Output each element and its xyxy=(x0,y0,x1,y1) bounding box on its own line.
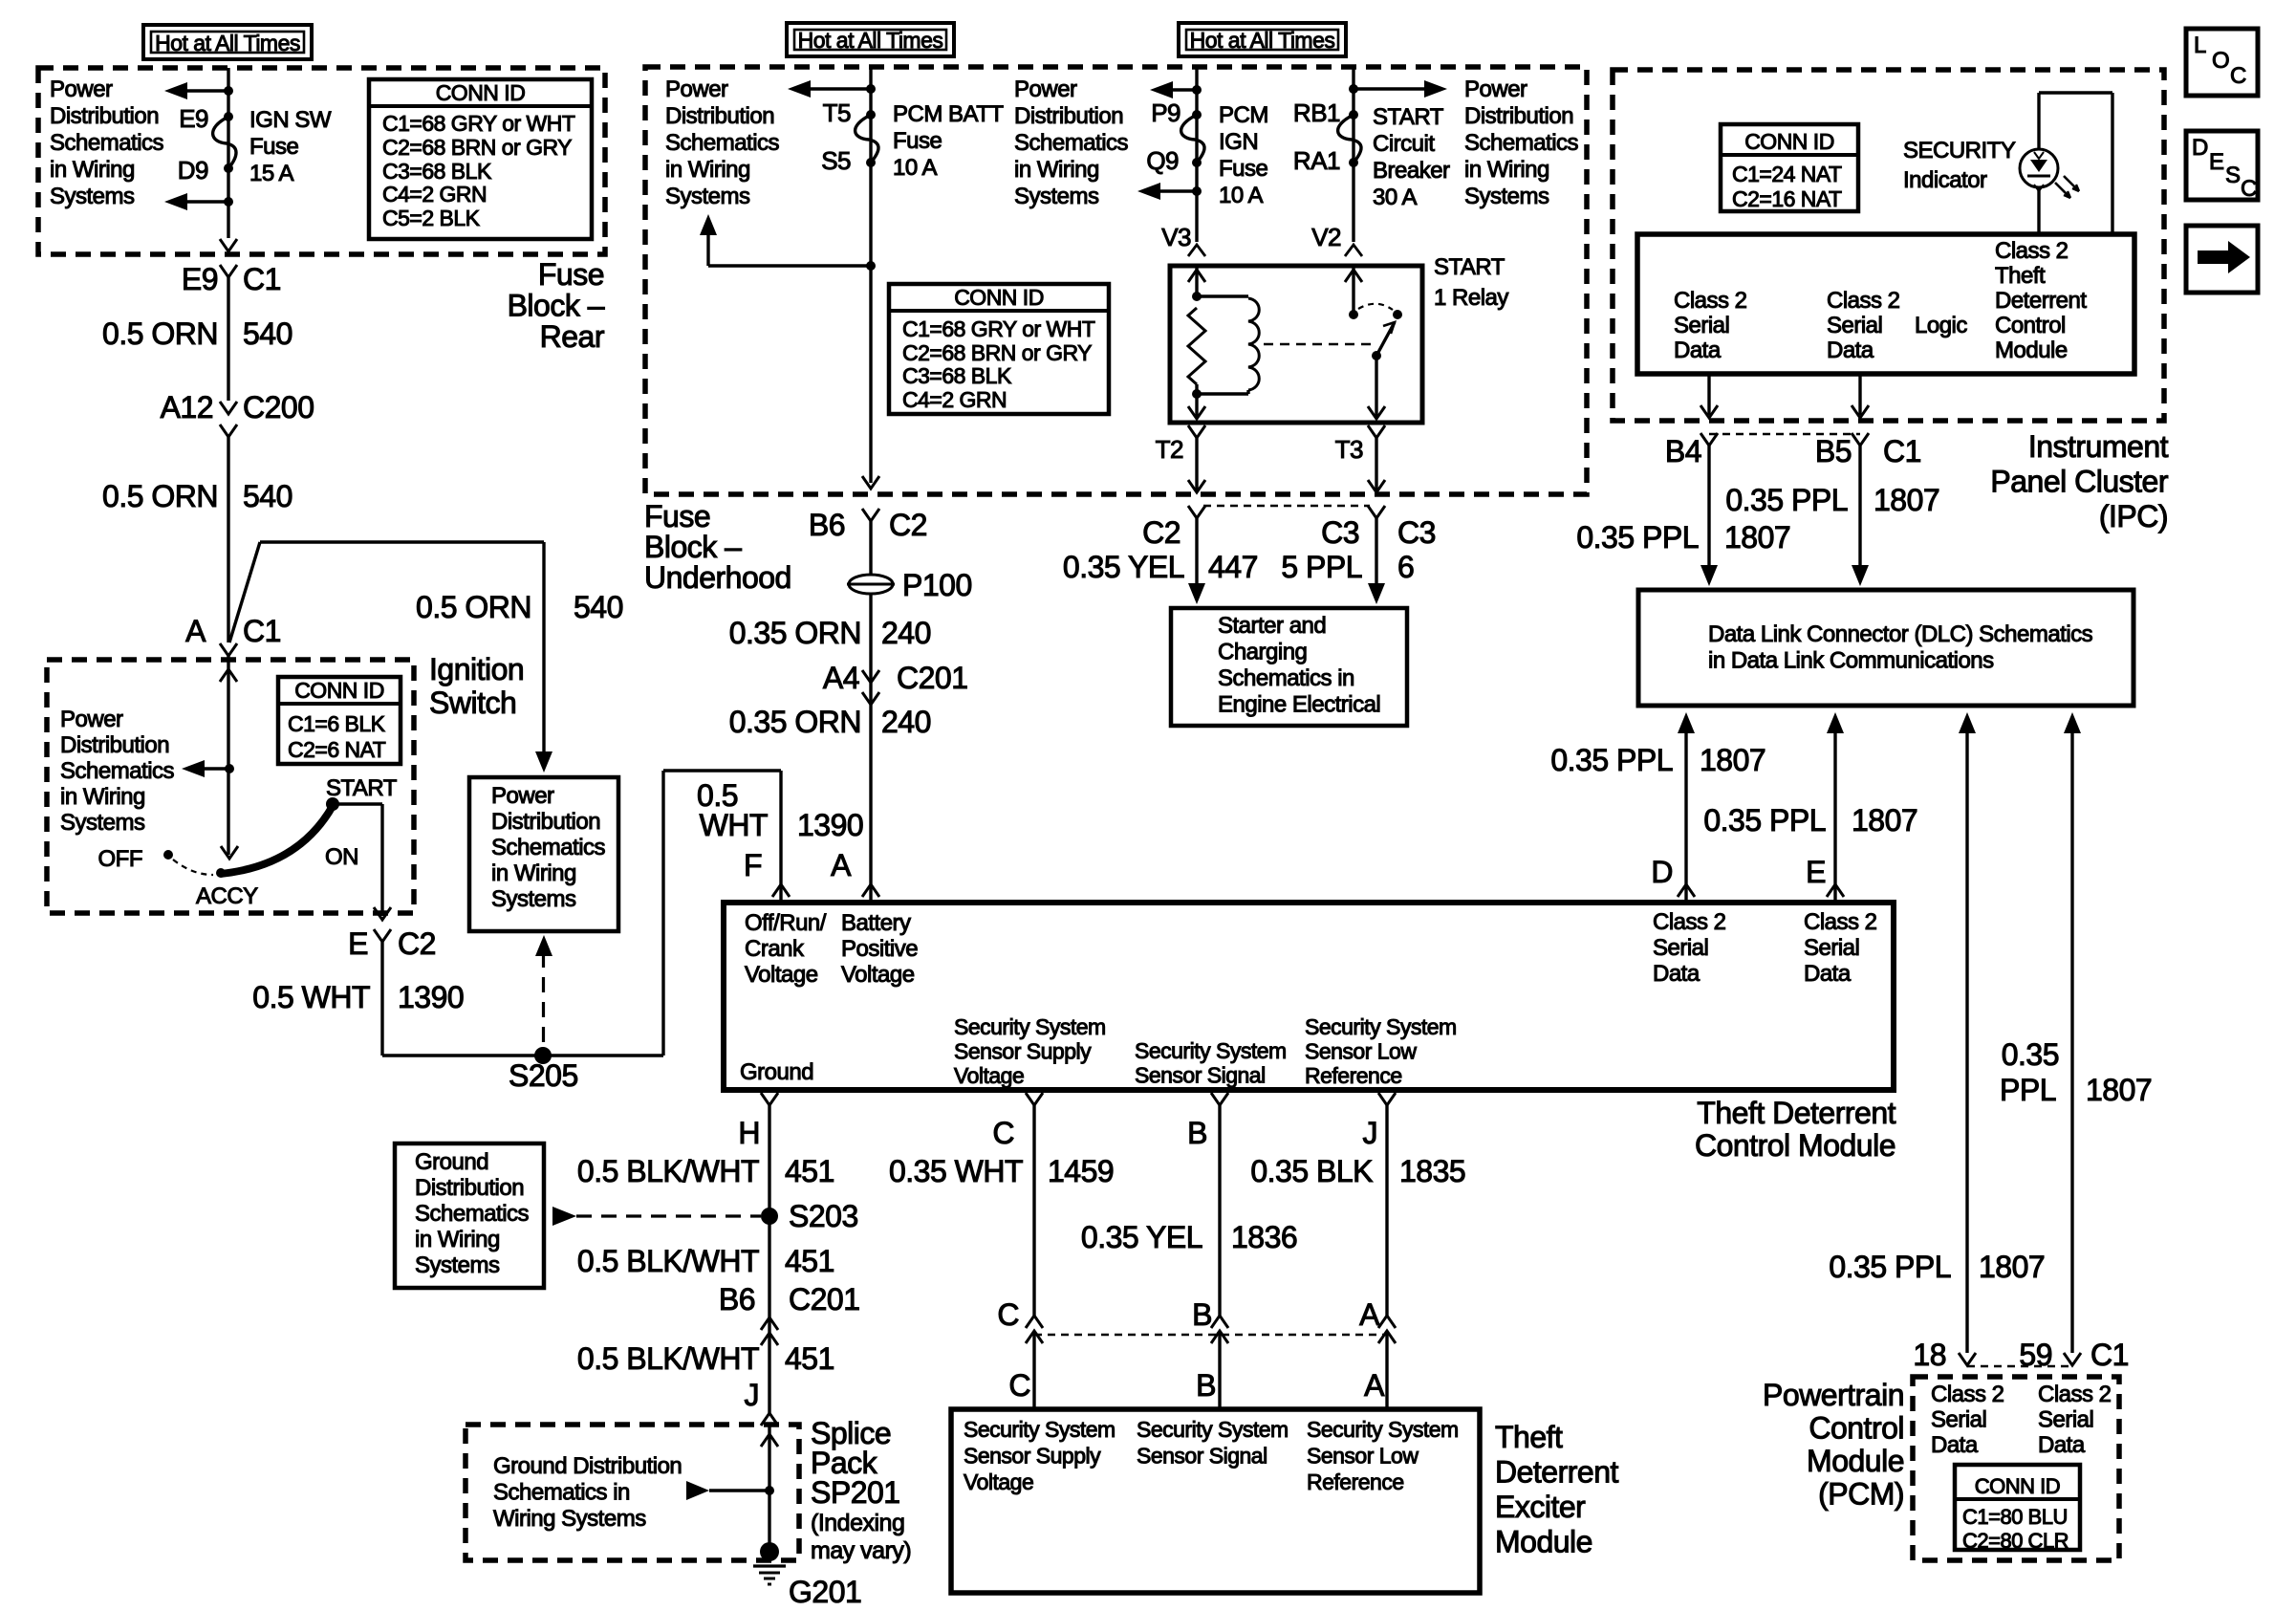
svg-text:in Wiring: in Wiring xyxy=(1014,157,1099,183)
svg-text:J: J xyxy=(1363,1116,1378,1150)
svg-text:Wiring Systems: Wiring Systems xyxy=(493,1506,646,1532)
svg-text:Class 2: Class 2 xyxy=(1674,288,1747,314)
svg-text:Class 2: Class 2 xyxy=(1653,909,1726,935)
svg-text:C2: C2 xyxy=(398,926,436,961)
svg-text:1459: 1459 xyxy=(1048,1154,1114,1188)
svg-text:in Wiring: in Wiring xyxy=(415,1227,500,1252)
svg-text:A4: A4 xyxy=(823,661,859,695)
svg-text:L: L xyxy=(2194,33,2206,58)
svg-text:0.35 ORN: 0.35 ORN xyxy=(729,705,861,739)
svg-text:B4: B4 xyxy=(1665,434,1701,468)
svg-text:Class 2: Class 2 xyxy=(2038,1382,2112,1407)
svg-text:Fuse: Fuse xyxy=(893,128,942,154)
svg-text:Distribution: Distribution xyxy=(415,1175,524,1201)
svg-text:PCM BATT: PCM BATT xyxy=(893,101,1004,127)
svg-text:Schematics: Schematics xyxy=(491,835,606,860)
svg-text:Serial: Serial xyxy=(1827,313,1882,338)
svg-text:Distribution: Distribution xyxy=(665,103,774,129)
svg-text:Sensor Signal: Sensor Signal xyxy=(1137,1444,1267,1469)
svg-text:Class 2: Class 2 xyxy=(1804,909,1877,935)
svg-text:1807: 1807 xyxy=(1979,1250,2045,1284)
svg-text:E9: E9 xyxy=(179,104,208,133)
svg-text:CONN ID: CONN ID xyxy=(1975,1474,2060,1498)
svg-text:Reference: Reference xyxy=(1307,1469,1404,1494)
svg-text:C: C xyxy=(992,1116,1014,1150)
svg-text:Systems: Systems xyxy=(50,184,135,209)
svg-text:1807: 1807 xyxy=(1700,743,1765,777)
svg-text:Serial: Serial xyxy=(1804,935,1859,961)
svg-text:Systems: Systems xyxy=(665,184,750,209)
svg-text:Fuse: Fuse xyxy=(644,499,710,533)
svg-text:Data: Data xyxy=(1827,337,1874,363)
svg-text:Switch: Switch xyxy=(429,686,516,720)
svg-text:H: H xyxy=(738,1116,760,1150)
svg-text:Power: Power xyxy=(1014,76,1077,102)
svg-text:E9: E9 xyxy=(182,262,218,296)
svg-text:Battery: Battery xyxy=(841,910,911,936)
svg-text:Systems: Systems xyxy=(491,886,576,912)
svg-text:0.35 WHT: 0.35 WHT xyxy=(889,1154,1023,1188)
svg-text:0.35: 0.35 xyxy=(2002,1037,2059,1072)
svg-text:0.35 PPL: 0.35 PPL xyxy=(1829,1250,1951,1284)
svg-text:C: C xyxy=(2241,176,2257,202)
svg-text:Power: Power xyxy=(50,76,113,102)
svg-text:Indicator: Indicator xyxy=(1903,167,1987,193)
svg-text:T3: T3 xyxy=(1335,435,1363,464)
svg-text:Schematics in: Schematics in xyxy=(493,1480,630,1506)
svg-text:0.35 ORN: 0.35 ORN xyxy=(729,616,861,650)
svg-text:C1: C1 xyxy=(243,262,281,296)
svg-text:Theft Deterrent: Theft Deterrent xyxy=(1697,1096,1895,1130)
svg-text:C4=2 GRN: C4=2 GRN xyxy=(382,182,487,207)
svg-text:Distribution: Distribution xyxy=(491,809,600,835)
svg-text:Ground Distribution: Ground Distribution xyxy=(493,1453,682,1479)
svg-text:START: START xyxy=(326,775,398,801)
svg-text:Distribution: Distribution xyxy=(60,732,169,758)
svg-text:Sensor Signal: Sensor Signal xyxy=(1135,1063,1266,1088)
svg-text:Circuit: Circuit xyxy=(1373,131,1435,157)
svg-text:(IPC): (IPC) xyxy=(2099,499,2168,533)
svg-text:RA1: RA1 xyxy=(1293,146,1340,175)
svg-text:0.5 ORN: 0.5 ORN xyxy=(102,316,218,351)
svg-text:C2=80 CLR: C2=80 CLR xyxy=(1962,1529,2069,1553)
svg-text:S203: S203 xyxy=(789,1199,858,1233)
svg-text:447: 447 xyxy=(1208,550,1258,584)
svg-text:Voltage: Voltage xyxy=(841,962,915,988)
svg-text:1835: 1835 xyxy=(1399,1154,1465,1188)
svg-text:0.5 WHT: 0.5 WHT xyxy=(252,980,370,1014)
svg-text:Data: Data xyxy=(2038,1432,2086,1458)
svg-text:C1: C1 xyxy=(243,614,281,648)
svg-text:240: 240 xyxy=(881,616,931,650)
svg-text:V3: V3 xyxy=(1161,223,1191,251)
svg-text:in Wiring: in Wiring xyxy=(1464,157,1549,183)
svg-text:0.35 PPL: 0.35 PPL xyxy=(1703,803,1826,838)
svg-text:ACCY: ACCY xyxy=(196,883,258,909)
svg-text:451: 451 xyxy=(785,1341,834,1376)
svg-text:in Wiring: in Wiring xyxy=(60,784,145,810)
svg-text:C1=80 BLU: C1=80 BLU xyxy=(1962,1505,2068,1529)
svg-text:Serial: Serial xyxy=(2038,1407,2093,1433)
svg-text:OFF: OFF xyxy=(98,846,143,872)
svg-text:Underhood: Underhood xyxy=(644,560,791,595)
svg-text:Ground: Ground xyxy=(415,1149,488,1175)
svg-text:B5: B5 xyxy=(1815,434,1852,468)
svg-text:WHT: WHT xyxy=(700,808,768,842)
svg-text:C201: C201 xyxy=(897,661,968,695)
svg-text:540: 540 xyxy=(243,316,292,351)
svg-text:Ground: Ground xyxy=(740,1059,813,1085)
svg-text:0.5 BLK/WHT: 0.5 BLK/WHT xyxy=(577,1244,759,1278)
svg-text:E: E xyxy=(2209,149,2224,175)
svg-text:Module: Module xyxy=(1495,1525,1592,1559)
svg-text:Fuse: Fuse xyxy=(538,257,604,292)
svg-text:D: D xyxy=(2192,135,2208,161)
svg-text:A: A xyxy=(831,848,852,882)
svg-text:Serial: Serial xyxy=(1653,935,1708,961)
svg-text:Deterrent: Deterrent xyxy=(1495,1455,1619,1490)
svg-text:in Data Link Communications: in Data Link Communications xyxy=(1708,648,1994,674)
svg-text:0.35 PPL: 0.35 PPL xyxy=(1725,483,1848,517)
svg-text:Distribution: Distribution xyxy=(1014,103,1123,129)
svg-text:D: D xyxy=(1651,855,1673,889)
svg-text:0.5 ORN: 0.5 ORN xyxy=(416,590,531,624)
svg-text:C2: C2 xyxy=(1142,515,1180,550)
svg-text:Systems: Systems xyxy=(1014,184,1099,209)
svg-text:Block –: Block – xyxy=(508,289,605,323)
svg-text:S5: S5 xyxy=(821,146,851,175)
svg-text:5 PPL: 5 PPL xyxy=(1281,550,1362,584)
svg-text:PPL: PPL xyxy=(2000,1073,2056,1107)
svg-text:Control: Control xyxy=(1995,313,2066,338)
svg-text:Crank: Crank xyxy=(745,936,805,962)
svg-text:Power: Power xyxy=(1464,76,1527,102)
svg-text:Engine Electrical: Engine Electrical xyxy=(1218,692,1380,718)
svg-text:Class 2: Class 2 xyxy=(1931,1382,2004,1407)
svg-text:Rear: Rear xyxy=(540,319,605,354)
svg-text:Block –: Block – xyxy=(644,530,742,564)
svg-text:CONN ID: CONN ID xyxy=(436,80,526,105)
svg-text:CONN ID: CONN ID xyxy=(1744,129,1834,154)
svg-text:1390: 1390 xyxy=(797,808,863,842)
svg-text:Hot at All Times: Hot at All Times xyxy=(155,31,300,55)
svg-text:Schematics: Schematics xyxy=(50,130,164,156)
svg-text:C4=2 GRN: C4=2 GRN xyxy=(902,387,1007,412)
svg-text:in Wiring: in Wiring xyxy=(491,860,576,886)
svg-text:Class 2: Class 2 xyxy=(1995,238,2069,264)
svg-text:Positive: Positive xyxy=(841,936,918,962)
svg-text:451: 451 xyxy=(785,1154,834,1188)
svg-text:C1: C1 xyxy=(1883,434,1921,468)
svg-text:1807: 1807 xyxy=(1724,520,1790,555)
svg-text:C2=68 BRN or GRY: C2=68 BRN or GRY xyxy=(902,340,1092,365)
svg-text:Systems: Systems xyxy=(1464,184,1549,209)
svg-text:Schematics: Schematics xyxy=(1464,130,1579,156)
svg-text:B6: B6 xyxy=(719,1282,755,1317)
svg-text:Systems: Systems xyxy=(60,810,145,836)
svg-text:C2=6 NAT: C2=6 NAT xyxy=(288,737,386,762)
svg-text:IGN SW: IGN SW xyxy=(249,107,332,133)
svg-text:Sensor Low: Sensor Low xyxy=(1305,1039,1417,1064)
svg-text:Schematics: Schematics xyxy=(60,758,175,784)
svg-text:Schematics in: Schematics in xyxy=(1218,665,1354,691)
svg-text:Serial: Serial xyxy=(1931,1407,1986,1433)
svg-text:Security System: Security System xyxy=(1137,1417,1289,1442)
svg-text:B: B xyxy=(1196,1368,1216,1403)
svg-text:C1=24 NAT: C1=24 NAT xyxy=(1732,162,1842,186)
svg-text:Reference: Reference xyxy=(1305,1063,1402,1088)
svg-text:10 A: 10 A xyxy=(893,155,938,181)
svg-text:SECURITY: SECURITY xyxy=(1903,138,2016,163)
svg-text:Power: Power xyxy=(491,783,554,809)
svg-text:Module: Module xyxy=(1995,337,2068,363)
svg-text:C3=68 BLK: C3=68 BLK xyxy=(902,363,1012,388)
svg-text:ON: ON xyxy=(325,844,358,870)
svg-text:Logic: Logic xyxy=(1915,313,1967,338)
svg-text:18: 18 xyxy=(1913,1338,1946,1372)
svg-text:P100: P100 xyxy=(902,568,972,602)
svg-text:C2=16 NAT: C2=16 NAT xyxy=(1732,186,1842,211)
svg-text:S: S xyxy=(2225,163,2241,188)
svg-text:Ignition: Ignition xyxy=(429,652,524,686)
svg-text:Q9: Q9 xyxy=(1146,146,1179,175)
svg-text:Fuse: Fuse xyxy=(1219,156,1268,182)
svg-text:C: C xyxy=(2230,63,2246,89)
svg-text:IGN: IGN xyxy=(1219,129,1258,155)
svg-text:Serial: Serial xyxy=(1674,313,1729,338)
svg-text:S205: S205 xyxy=(509,1058,578,1093)
svg-text:0.35 PPL: 0.35 PPL xyxy=(1576,520,1699,555)
svg-text:Security System: Security System xyxy=(954,1014,1106,1039)
svg-text:C3: C3 xyxy=(1321,515,1359,550)
svg-text:Module: Module xyxy=(1807,1444,1904,1478)
svg-text:59: 59 xyxy=(2019,1338,2052,1372)
svg-text:0.35 BLK: 0.35 BLK xyxy=(1250,1154,1373,1188)
svg-text:A: A xyxy=(1359,1297,1380,1332)
svg-text:P9: P9 xyxy=(1151,98,1180,127)
svg-text:E: E xyxy=(348,926,368,961)
svg-text:F: F xyxy=(744,848,762,882)
svg-text:C1: C1 xyxy=(2090,1338,2129,1372)
svg-text:Panel Cluster: Panel Cluster xyxy=(1990,465,2168,499)
svg-text:C: C xyxy=(997,1297,1019,1332)
svg-text:Fuse: Fuse xyxy=(249,134,299,160)
svg-text:Power: Power xyxy=(665,76,728,102)
svg-text:Control: Control xyxy=(1809,1411,1904,1446)
svg-text:B: B xyxy=(1192,1297,1212,1332)
svg-text:C5=2 BLK: C5=2 BLK xyxy=(382,206,481,230)
svg-text:RB1: RB1 xyxy=(1293,98,1340,127)
svg-text:540: 540 xyxy=(243,479,292,513)
svg-text:C2=68 BRN or GRY: C2=68 BRN or GRY xyxy=(382,135,572,160)
svg-text:CONN ID: CONN ID xyxy=(954,285,1044,310)
svg-text:30 A: 30 A xyxy=(1373,185,1418,210)
svg-text:Hot at All Times: Hot at All Times xyxy=(798,28,943,53)
svg-text:Data: Data xyxy=(1653,961,1700,987)
svg-text:C1=6 BLK: C1=6 BLK xyxy=(288,711,386,736)
svg-text:E: E xyxy=(1806,855,1826,889)
svg-text:may vary): may vary) xyxy=(811,1537,911,1564)
svg-text:Off/Run/: Off/Run/ xyxy=(745,910,827,936)
svg-text:CONN ID: CONN ID xyxy=(294,678,384,703)
svg-text:Data: Data xyxy=(1674,337,1722,363)
svg-text:Security System: Security System xyxy=(1307,1417,1459,1442)
svg-text:C200: C200 xyxy=(243,390,314,425)
svg-text:T2: T2 xyxy=(1156,435,1183,464)
svg-text:Deterrent: Deterrent xyxy=(1995,288,2087,314)
svg-text:C: C xyxy=(1008,1368,1030,1403)
svg-text:START: START xyxy=(1373,104,1444,130)
svg-text:C201: C201 xyxy=(789,1282,860,1317)
svg-text:Schematics: Schematics xyxy=(415,1201,530,1227)
svg-text:Sensor Supply: Sensor Supply xyxy=(954,1039,1092,1064)
svg-text:Security System: Security System xyxy=(1305,1014,1457,1039)
svg-text:Exciter: Exciter xyxy=(1495,1490,1586,1524)
svg-text:0.35 YEL: 0.35 YEL xyxy=(1063,550,1184,584)
svg-text:O: O xyxy=(2212,48,2229,74)
svg-text:(Indexing: (Indexing xyxy=(811,1510,904,1536)
svg-text:C1=68 GRY or WHT: C1=68 GRY or WHT xyxy=(902,316,1095,341)
svg-text:Voltage: Voltage xyxy=(745,962,818,988)
svg-text:Schematics: Schematics xyxy=(1014,130,1129,156)
svg-text:Voltage: Voltage xyxy=(964,1469,1033,1494)
svg-text:1390: 1390 xyxy=(398,980,464,1014)
svg-text:Charging: Charging xyxy=(1218,640,1307,665)
svg-text:Breaker: Breaker xyxy=(1373,158,1450,184)
svg-text:1 Relay: 1 Relay xyxy=(1434,285,1508,311)
svg-text:6: 6 xyxy=(1397,550,1414,584)
svg-text:T5: T5 xyxy=(823,98,851,127)
svg-text:1807: 1807 xyxy=(2086,1073,2152,1107)
svg-text:0.5 BLK/WHT: 0.5 BLK/WHT xyxy=(577,1154,759,1188)
svg-text:0.5 BLK/WHT: 0.5 BLK/WHT xyxy=(577,1341,759,1376)
svg-text:G201: G201 xyxy=(789,1575,861,1609)
svg-text:START: START xyxy=(1434,254,1505,280)
svg-text:Powertrain: Powertrain xyxy=(1763,1378,1904,1412)
svg-text:Power: Power xyxy=(60,707,123,732)
svg-text:0.35 PPL: 0.35 PPL xyxy=(1550,743,1673,777)
svg-text:Class 2: Class 2 xyxy=(1827,288,1900,314)
svg-text:Distribution: Distribution xyxy=(1464,103,1573,129)
svg-text:Sensor Low: Sensor Low xyxy=(1307,1444,1419,1469)
svg-text:15 A: 15 A xyxy=(249,161,294,186)
svg-text:Distribution: Distribution xyxy=(50,103,159,129)
svg-text:Hot at All Times: Hot at All Times xyxy=(1190,28,1335,53)
svg-text:PCM: PCM xyxy=(1219,102,1268,128)
svg-text:1807: 1807 xyxy=(1852,803,1917,838)
svg-text:C1=68 GRY or WHT: C1=68 GRY or WHT xyxy=(382,111,575,136)
svg-text:in Wiring: in Wiring xyxy=(50,157,135,183)
svg-text:0.35 YEL: 0.35 YEL xyxy=(1081,1220,1202,1254)
svg-text:0.5 ORN: 0.5 ORN xyxy=(102,479,218,513)
svg-text:Theft: Theft xyxy=(1995,263,2046,289)
svg-text:A: A xyxy=(1364,1368,1385,1403)
svg-text:Voltage: Voltage xyxy=(954,1063,1024,1088)
svg-text:451: 451 xyxy=(785,1244,834,1278)
svg-text:J: J xyxy=(745,1378,760,1412)
svg-text:Data: Data xyxy=(1804,961,1852,987)
svg-text:10 A: 10 A xyxy=(1219,183,1264,208)
svg-text:SP201: SP201 xyxy=(811,1475,900,1510)
svg-text:Systems: Systems xyxy=(415,1252,500,1278)
svg-text:240: 240 xyxy=(881,705,931,739)
svg-text:V2: V2 xyxy=(1311,223,1341,251)
svg-text:C2: C2 xyxy=(889,508,927,542)
svg-text:in Wiring: in Wiring xyxy=(665,157,750,183)
svg-text:Schematics: Schematics xyxy=(665,130,780,156)
svg-text:C3=68 BLK: C3=68 BLK xyxy=(382,159,492,184)
svg-text:D9: D9 xyxy=(178,156,208,185)
svg-text:A: A xyxy=(185,614,206,648)
svg-text:Security System: Security System xyxy=(1135,1038,1287,1063)
svg-text:540: 540 xyxy=(574,590,623,624)
svg-text:1807: 1807 xyxy=(1874,483,1939,517)
svg-text:Theft: Theft xyxy=(1495,1420,1563,1454)
svg-text:C3: C3 xyxy=(1397,515,1436,550)
svg-text:Data Link Connector (DLC) Sche: Data Link Connector (DLC) Schematics xyxy=(1708,621,2093,647)
svg-text:Starter and: Starter and xyxy=(1218,613,1326,639)
svg-text:Control Module: Control Module xyxy=(1695,1128,1895,1163)
svg-text:Sensor Supply: Sensor Supply xyxy=(964,1444,1101,1469)
svg-text:B6: B6 xyxy=(809,508,845,542)
svg-text:1836: 1836 xyxy=(1231,1220,1297,1254)
svg-text:Security System: Security System xyxy=(964,1417,1116,1442)
svg-text:Data: Data xyxy=(1931,1432,1979,1458)
svg-text:A12: A12 xyxy=(161,390,213,425)
svg-text:B: B xyxy=(1187,1116,1207,1150)
svg-text:Instrument: Instrument xyxy=(2028,429,2169,464)
svg-text:(PCM): (PCM) xyxy=(1818,1477,1904,1512)
